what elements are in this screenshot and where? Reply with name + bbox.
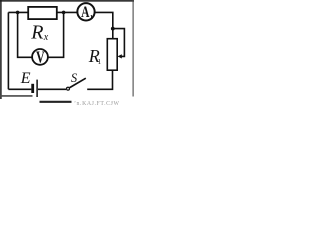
watermark remnant (bottom) — [74, 101, 120, 107]
label R1 — [88, 46, 102, 66]
voltmeter V — [32, 49, 48, 68]
wire: rheostat slider loop — [113, 29, 125, 57]
wire: voltmeter branch right vertical — [48, 12, 64, 57]
ammeter A1 — [77, 3, 94, 21]
battery E: negative short thick plate — [31, 84, 34, 93]
node: junction dot at rheostat tap — [111, 27, 115, 31]
svg-text:1: 1 — [90, 14, 93, 21]
border frame — [0, 0, 134, 102]
svg-text:A: A — [81, 4, 89, 21]
svg-text:E: E — [20, 70, 31, 87]
wire: left vertical (node from top wire down to battery) — [7, 12, 9, 89]
svg-text:S: S — [71, 71, 78, 85]
battery E: positive long plate — [36, 80, 38, 97]
resistor Rx (box) — [28, 7, 57, 19]
label S — [71, 71, 78, 85]
node: junction dot left (voltmeter tap at Rx left) — [16, 11, 20, 15]
label Rx — [30, 21, 49, 43]
wire: top left horizontal to Rx — [8, 11, 27, 13]
svg-text:1: 1 — [98, 58, 102, 66]
rheostat slider arrowhead — [118, 54, 122, 58]
wire: bottom left to battery — [8, 88, 31, 90]
wire: R1 bottom down to bottom wire, left to switch — [87, 70, 112, 89]
wire: voltmeter branch left vertical — [18, 12, 33, 57]
svg-text:R: R — [30, 21, 43, 43]
wire: battery right to switch — [38, 88, 66, 90]
wire: Rx right to ammeter — [57, 11, 78, 13]
resistor R1 (rheostat box) — [107, 39, 117, 70]
label E — [20, 70, 31, 87]
switch S (open knife switch) — [67, 78, 86, 90]
node: junction dot right (voltmeter tap at Rx right) — [62, 11, 66, 15]
svg-text:x: x — [43, 32, 49, 43]
wire: ammeter right to top-right corner, down to R1 junction — [95, 12, 113, 38]
svg-text:’n.KAJ.FT.CɈW: ’n.KAJ.FT.CɈW — [74, 101, 120, 106]
svg-text:V: V — [36, 49, 45, 68]
